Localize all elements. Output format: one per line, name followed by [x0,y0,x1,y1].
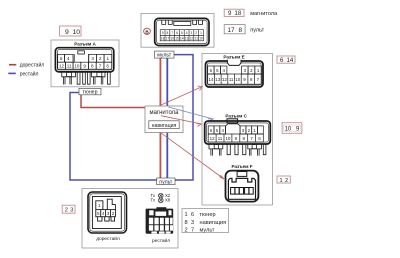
svg-text:10: 10 [73,29,81,36]
label box 9 18 [224,9,244,17]
svg-text:3: 3 [91,56,94,61]
svg-text:13: 13 [185,36,189,40]
connector A pins top row [58,54,112,62]
connector E pins bottom [208,74,262,84]
box mult top [155,51,174,59]
svg-text:10: 10 [235,77,240,82]
svg-text:дорестайл: дорестайл [20,62,45,69]
label Tx X8 [151,198,171,203]
connector E top notch [227,60,241,66]
connector dorestail body [88,192,127,233]
label box 9 10 [60,26,82,36]
svg-text:6: 6 [106,64,109,69]
svg-text:5: 5 [181,31,183,35]
svg-text:Разъем F: Разъем F [231,164,252,169]
svg-text:8: 8 [239,27,243,34]
wire red mult-pult vertical [159,58,161,179]
svg-text:12: 12 [210,136,215,141]
svg-text:11: 11 [218,136,223,141]
right connectors frame [202,54,273,206]
svg-text:12: 12 [222,77,227,82]
svg-text:магнитола: магнитола [149,110,179,116]
wire red tuner-magnitola [81,95,146,108]
label box 10 9 [282,123,302,134]
connector restail body [146,207,174,234]
label box 1 2 [277,176,290,184]
svg-text:18: 18 [235,11,242,17]
svg-text:1: 1 [200,31,202,35]
connector C terminals below [209,144,266,156]
connector block A frame [51,40,119,87]
svg-text:7: 7 [99,64,102,69]
svg-text:11: 11 [195,36,199,40]
connector C pins top [208,126,263,134]
connector B pin rows [160,30,203,41]
label box 2 3 [62,205,75,213]
svg-text:9: 9 [83,64,86,69]
box magnitola [145,106,183,133]
svg-text:1: 1 [185,212,188,218]
svg-text:4: 4 [186,31,188,35]
svg-text:12: 12 [59,64,65,69]
svg-text:10: 10 [74,64,80,69]
svg-text:13: 13 [215,77,220,82]
svg-text:дорестайл: дорестайл [96,235,120,242]
label box 6 14 [277,56,295,64]
legend line restail [8,70,38,77]
svg-text:2: 2 [285,178,288,184]
arrow red to C corner [161,116,202,127]
connector B top latches [162,20,203,25]
svg-text:14: 14 [287,58,294,64]
wire blue mult-pult right loop [174,55,193,180]
svg-text:6: 6 [191,212,194,218]
svg-text:мульт: мульт [157,53,171,59]
svg-text:рестайл: рестайл [20,70,39,77]
svg-text:тюнер: тюнер [200,212,216,218]
svg-text:6: 6 [176,31,178,35]
box tuner [79,88,101,95]
arrow blue to C [169,107,214,122]
connector F pin row [231,188,254,195]
connector B body [155,18,209,45]
svg-text:пульт: пульт [250,28,264,34]
marker B red circle [144,28,151,34]
svg-text:14: 14 [209,77,214,82]
svg-text:Х8: Х8 [165,198,171,203]
svg-text:2: 2 [185,227,188,233]
connector A pins bottom row [58,62,112,69]
svg-text:8: 8 [91,64,94,69]
svg-text:навигация: навигация [152,123,177,129]
svg-text:Разъем А: Разъем А [74,41,96,46]
svg-text:2: 2 [65,208,68,214]
svg-text:15: 15 [175,36,179,40]
svg-text:1: 1 [280,178,283,184]
svg-text:3: 3 [70,208,73,214]
svg-text:5: 5 [60,56,63,61]
wire blue tuner-pult loop [70,93,157,181]
svg-text:4: 4 [67,56,70,61]
svg-text:3: 3 [191,31,193,35]
svg-text:12: 12 [190,36,194,40]
svg-text:18: 18 [161,36,165,40]
svg-text:мульт: мульт [200,227,215,233]
svg-text:10: 10 [199,36,203,40]
connector E pins top [208,66,262,74]
bottom connectors frame [82,189,178,249]
svg-text:навигация: навигация [200,220,227,226]
box navigacia [149,121,179,129]
svg-text:16: 16 [170,36,174,40]
svg-text:14: 14 [180,36,184,40]
svg-text:пульт: пульт [159,180,173,186]
svg-text:10: 10 [225,136,230,141]
svg-text:рестайл: рестайл [152,237,170,244]
svg-text:2: 2 [99,56,102,61]
svg-text:1: 1 [107,56,110,61]
svg-text:3: 3 [191,220,194,226]
connector block B frame [141,14,214,48]
svg-text:17: 17 [166,36,170,40]
svg-text:8: 8 [167,31,169,35]
connector A terminals below [62,72,110,85]
connector dorestail inner shape [96,199,116,221]
svg-text:17: 17 [228,27,236,34]
svg-text:10: 10 [285,127,292,133]
svg-text:Разъем С: Разъем С [225,114,247,119]
connector A body [55,48,113,72]
svg-text:тюнер: тюнер [83,90,98,96]
connector C pins bottom [208,134,263,142]
arrow red to E [161,86,203,105]
svg-text:11: 11 [67,64,72,69]
svg-text:магнитола: магнитола [250,11,278,17]
svg-text:7: 7 [171,31,173,35]
svg-text:2: 2 [195,31,197,35]
arrow red to F [161,133,224,179]
connector C body [205,119,271,144]
svg-text:11: 11 [229,77,234,82]
connector C key block [226,124,241,134]
legend table [182,209,229,234]
svg-text:9: 9 [65,29,69,36]
wire blue mult-pult vertical [166,58,168,179]
svg-text:7: 7 [191,227,194,233]
label Tx X2 [151,193,171,198]
svg-text:8: 8 [185,220,188,226]
legend line dorestail [9,62,44,69]
svg-text:Разъем Е: Разъем Е [223,54,244,59]
box pult bottom [157,178,175,186]
svg-text:9: 9 [162,31,164,35]
label box 17 8 [224,25,245,34]
connector E body [206,61,264,87]
connector F body [226,171,259,202]
